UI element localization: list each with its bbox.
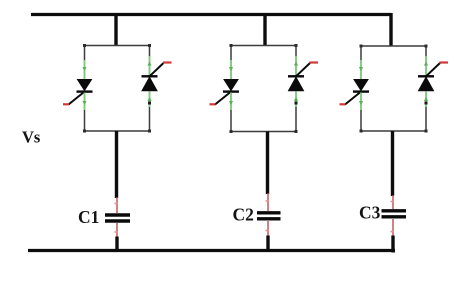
thyristor T3b (branch 3 right, conducts upward) xyxy=(418,56,448,107)
wire branch-2 top drop xyxy=(263,13,266,46)
thyristor T2b (branch 2 right, conducts upward) xyxy=(288,56,318,107)
thyristor T3a (branch 3 left, conducts downward) xyxy=(340,60,370,110)
wire branch-3 capacitor red lead bottom xyxy=(391,219,395,236)
wire bottom return bus xyxy=(28,249,395,252)
wire branch-2 capacitor red lead top xyxy=(266,193,270,211)
svg-text:C1: C1 xyxy=(78,207,99,227)
thyristor T1a (branch 1 left, conducts downward) xyxy=(63,60,93,110)
wire branch-3 bottom column (upper black) xyxy=(391,131,394,196)
capacitor C2 value label xyxy=(233,205,254,225)
wire branch-2 loop frame xyxy=(230,44,298,133)
wire branch-1 capacitor red lead top xyxy=(115,197,119,213)
junction bottom-right node xyxy=(392,249,396,253)
capacitor C2 xyxy=(257,213,281,219)
wire branch-3 bottom column (lower black) xyxy=(391,236,394,251)
wire branch-3 top drop xyxy=(389,13,392,46)
wire branch-1 bottom column (upper black) xyxy=(115,131,118,198)
capacitor C1 xyxy=(105,215,130,221)
capacitor C3 xyxy=(382,211,407,217)
capacitor C1 value label xyxy=(78,207,99,227)
wire branch-2 bottom column (lower black) xyxy=(266,236,269,251)
wire branch-1 capacitor red lead bottom xyxy=(115,223,119,237)
wire top supply bus xyxy=(31,13,391,16)
wire branch-1 bottom column (lower black) xyxy=(115,237,118,251)
wire branch-3 loop frame xyxy=(360,45,428,133)
capacitor C3 value label xyxy=(359,203,381,223)
thyristor T2a (branch 2 left, conducts downward) xyxy=(210,60,240,110)
node Vs label xyxy=(22,128,41,147)
svg-text:C2: C2 xyxy=(233,205,254,225)
wire branch-2 capacitor red lead bottom xyxy=(266,221,270,236)
svg-text:C3: C3 xyxy=(359,203,381,223)
wire branch-1 loop frame xyxy=(83,44,151,133)
thyristor T1b (branch 1 right, conducts upward) xyxy=(142,56,172,107)
wire branch-2 bottom column (upper black) xyxy=(266,132,269,195)
svg-text:Vs: Vs xyxy=(22,128,41,147)
wire branch-3 capacitor red lead top xyxy=(391,195,395,209)
wire branch-1 top drop xyxy=(114,13,117,46)
